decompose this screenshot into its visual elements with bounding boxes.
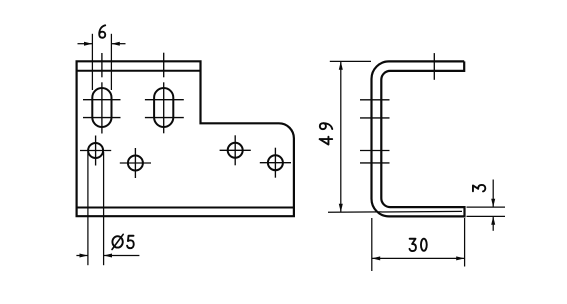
side view bottom flange inner edge thin line	[328, 210, 462, 213]
dimension 6 left arrowhead	[84, 42, 92, 46]
hole H1 (Ø5)	[88, 143, 103, 158]
dimension 30 right arrowhead	[456, 256, 464, 260]
dimension Ø5 dimension line with arrows	[76, 255, 139, 257]
dimension 30 value label	[410, 239, 427, 251]
side view web hole-row tick at hole row 1	[360, 150, 390, 152]
side view top flange hole centerline tick	[433, 53, 435, 80]
side view C-profile outline	[372, 61, 465, 216]
dimension 6 extension lines	[92, 34, 111, 90]
dimension 49 bottom arrowhead	[339, 204, 343, 212]
dimension 30 dimension line	[372, 257, 465, 259]
dimension 6 dimension line with arrows	[78, 43, 126, 45]
side view web hole-row tick at slot upper arc	[360, 99, 390, 101]
slot hole S2	[154, 88, 173, 127]
hole H4	[268, 155, 283, 170]
dimension 49 top extension line	[330, 60, 371, 62]
hole H3	[228, 143, 243, 158]
dimension 30 left arrowhead	[372, 256, 380, 260]
hole H2 centerlines	[120, 148, 151, 178]
slot S2 lower arc centerline	[145, 117, 184, 119]
dimension 3 lower arrowhead	[491, 216, 495, 224]
dimension 49 value label	[320, 123, 333, 144]
hole H1 centerlines	[80, 136, 111, 166]
slot S2 vertical centerline	[163, 53, 165, 134]
dimension Ø5 right arrowhead	[104, 254, 112, 258]
dimension Ø5 left arrowhead	[80, 254, 88, 258]
bottom bend fold line	[77, 207, 294, 209]
dimension 3 upper arrowhead	[491, 199, 495, 207]
dimension Ø5 value label	[112, 234, 134, 249]
top bend fold line	[77, 70, 201, 72]
dimension 30 extension lines	[372, 218, 465, 271]
hole H4 centerlines	[260, 148, 291, 178]
dimension 3 extension lines	[467, 207, 506, 216]
dimension 6 right arrowhead	[111, 42, 119, 46]
slot hole S1	[92, 88, 111, 127]
front view outline (bracket plate with step and rounded corner)	[77, 61, 294, 216]
dimension 3 value label	[473, 185, 485, 191]
slot S2 upper arc centerline	[145, 99, 184, 101]
dimension Ø5 extension lines	[88, 152, 104, 265]
dimension 3 dimension line segments	[492, 180, 494, 231]
slot S1 vertical centerline	[101, 53, 103, 134]
dimension 49 dimension line	[340, 61, 342, 212]
dimension 49 top arrowhead	[339, 61, 343, 69]
slot S1 upper arc centerline	[83, 99, 121, 101]
hole H2	[128, 156, 143, 171]
dimension 6 value label	[99, 25, 105, 37]
side view web hole-row tick at hole row 2	[360, 162, 390, 164]
hole H3 centerlines	[220, 135, 251, 165]
side view web hole-row tick at slot lower arc	[360, 117, 390, 119]
slot S1 lower arc centerline	[83, 117, 121, 119]
